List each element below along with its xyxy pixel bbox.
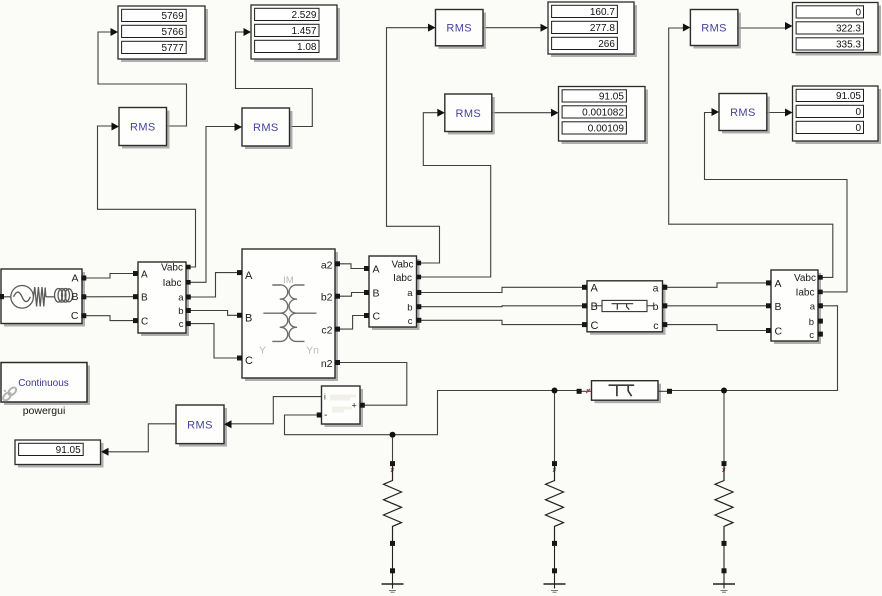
- svg-text:a: a: [653, 283, 659, 295]
- three-phase V-I measurement block meas3: [774, 273, 821, 344]
- meas2 port b: [416, 304, 421, 309]
- svg-text:B: B: [71, 291, 78, 303]
- meas1 port Iabc: [186, 280, 191, 285]
- ground: [382, 583, 404, 585]
- svg-text:0: 0: [855, 123, 861, 134]
- svg-text:A: A: [245, 270, 253, 282]
- meas3 port a: [818, 303, 823, 308]
- pi section left wire: [582, 390, 592, 392]
- wire transformer.b2 to meas2.B: [339, 293, 365, 297]
- svg-text:C: C: [775, 326, 783, 338]
- meas1 port Vabc: [186, 265, 191, 270]
- svg-text:a: a: [178, 293, 184, 304]
- wire RMS4 to display D3: [483, 27, 541, 29]
- wire RMS7 to display D6: [767, 112, 786, 114]
- svg-text:c2: c2: [321, 325, 332, 337]
- pi-line port b: [662, 303, 667, 308]
- RMS block RMS2: [245, 111, 293, 149]
- wire transformer.c2 to meas2.C: [339, 316, 365, 330]
- pi section red mark: [586, 389, 590, 393]
- svg-text:2.529: 2.529: [291, 10, 316, 21]
- wire RMS1 to display D1: [98, 32, 187, 126]
- transformer port a2: [335, 261, 340, 266]
- svg-text:A: A: [373, 263, 380, 275]
- wire source.B to meas1.B: [84, 296, 135, 298]
- wire meas3.a to load bus: [724, 306, 838, 391]
- svg-text:Continuous: Continuous: [18, 378, 69, 389]
- transformer port B: [237, 313, 242, 318]
- meas2 port C: [364, 313, 369, 318]
- svg-text:A: A: [141, 270, 148, 281]
- wire current measurement i to RMS3: [232, 397, 322, 424]
- three-phase source block: [4, 272, 85, 327]
- meas2 port Iabc: [417, 275, 422, 280]
- svg-text:RMS: RMS: [730, 107, 756, 119]
- svg-text:Yn: Yn: [306, 345, 319, 357]
- svg-text:b2: b2: [321, 292, 333, 304]
- svg-text:RMS: RMS: [130, 122, 156, 134]
- transformer port n2: [335, 360, 340, 365]
- three-phase transformer block: [245, 252, 338, 381]
- svg-text:C: C: [71, 310, 79, 322]
- meas1 port b: [186, 308, 191, 313]
- meas2 port A: [364, 266, 369, 271]
- junction dot node R2 tap: [552, 388, 558, 394]
- wire meas2.c to pi-line.C: [417, 320, 584, 324]
- meas2 port Vabc: [417, 261, 422, 266]
- meas3 port B: [766, 303, 771, 308]
- wire meas3.Vabc to RMS6: [669, 28, 833, 277]
- pi section right wire: [658, 390, 667, 392]
- powergui chain icon: [2, 386, 18, 402]
- pi section pi symbol: [609, 385, 635, 396]
- source port C: [81, 313, 86, 318]
- wire meas1.Vabc to RMS1: [98, 126, 196, 267]
- svg-text:Iabc: Iabc: [393, 273, 412, 284]
- svg-text:a2: a2: [321, 259, 333, 271]
- ground: [713, 583, 735, 585]
- pi-line port B: [582, 303, 587, 308]
- svg-text:B: B: [141, 292, 148, 303]
- three-phase V-I measurement block meas1: [141, 265, 189, 336]
- svg-text:powergui: powergui: [23, 405, 66, 417]
- wire meas1.b to transformer.B: [187, 311, 239, 316]
- meas1 port C: [133, 318, 138, 323]
- pi section port left: [577, 389, 582, 394]
- wire pi-line.b to meas3.B: [663, 305, 768, 307]
- svg-text:RMS: RMS: [253, 122, 279, 134]
- meas1 port A: [133, 271, 138, 276]
- meas3 port C: [766, 328, 771, 333]
- svg-text:c: c: [809, 330, 814, 341]
- svg-text:A: A: [775, 278, 782, 290]
- svg-text:0: 0: [855, 107, 861, 118]
- RMS block RMS3: [179, 408, 227, 447]
- svg-text:Vabc: Vabc: [794, 273, 816, 284]
- RMS block RMS4: [439, 13, 487, 49]
- wire meas1.a to transformer.A: [187, 273, 239, 297]
- source port N: [0, 294, 4, 299]
- svg-text:b: b: [407, 302, 412, 313]
- display D7: [18, 443, 104, 468]
- meas2 port a: [416, 290, 421, 295]
- pi section port right: [667, 389, 672, 394]
- svg-text:RMS: RMS: [701, 23, 727, 35]
- wire to R1: [392, 438, 394, 462]
- pi-line port a: [662, 285, 667, 290]
- wire meas2.a to pi-line.A: [417, 287, 584, 292]
- transformer port C: [237, 356, 242, 361]
- svg-text:Y: Y: [259, 345, 266, 357]
- current measurement block: [325, 389, 364, 427]
- pi-line port c: [662, 322, 667, 327]
- wire source.C to meas1.C: [84, 316, 135, 321]
- meas1 port B: [133, 294, 138, 299]
- wire meas2.Iabc to RMS5: [417, 113, 491, 277]
- svg-text:C: C: [591, 320, 599, 332]
- wire meas3.Iabc to RMS7: [705, 113, 848, 292]
- wire pi-line.c to meas3.C: [663, 325, 768, 331]
- display D1: [121, 9, 208, 62]
- pi-line inner rect: [602, 300, 647, 311]
- pi-line port A: [582, 285, 587, 290]
- meas3 port c: [818, 332, 823, 337]
- source internal drawing: [4, 286, 73, 309]
- junction dot node R3 tap: [721, 388, 727, 394]
- wire current measurement - to bus: [285, 415, 393, 435]
- meas3 port Iabc: [818, 290, 823, 295]
- wire meas1.c to transformer.C: [187, 324, 239, 358]
- single-phase PI section line block: [595, 384, 662, 404]
- powergui block: [4, 366, 90, 406]
- wire source.A to meas1.A: [84, 274, 135, 279]
- svg-text:0.001082: 0.001082: [582, 108, 624, 119]
- transformer port c2: [335, 327, 340, 332]
- svg-text:Iabc: Iabc: [163, 278, 182, 289]
- transformer winding 2: [289, 285, 316, 342]
- display D4: [562, 90, 649, 145]
- svg-text:322.3: 322.3: [836, 24, 861, 35]
- meas2 port c: [416, 318, 421, 323]
- resistor R2: [552, 461, 557, 466]
- three-phase PI section line block: [590, 284, 666, 335]
- svg-text:1.08: 1.08: [297, 42, 317, 53]
- svg-text:c: c: [179, 319, 184, 330]
- svg-text:a: a: [407, 288, 413, 299]
- svg-text:335.3: 335.3: [836, 40, 861, 51]
- RMS block RMS5: [448, 97, 495, 135]
- svg-text:A: A: [591, 283, 599, 295]
- svg-text:C: C: [245, 355, 253, 367]
- RMS block RMS7: [722, 97, 770, 134]
- svg-text:-: -: [324, 410, 327, 421]
- svg-text:160.7: 160.7: [590, 7, 615, 18]
- pi-line pi symbol: [612, 304, 634, 310]
- svg-text:c: c: [653, 320, 658, 332]
- source port B: [81, 294, 86, 299]
- RMS block RMS1: [122, 111, 170, 149]
- svg-text:b: b: [653, 301, 659, 313]
- wire to R2: [554, 394, 556, 462]
- transformer port b2: [335, 294, 340, 299]
- svg-text:5766: 5766: [161, 27, 184, 38]
- meas3 port A: [766, 280, 771, 285]
- svg-text:266: 266: [598, 39, 615, 50]
- svg-text:5777: 5777: [161, 43, 184, 54]
- current measurement faint interior: [330, 396, 356, 411]
- source port A: [81, 276, 86, 281]
- pi-line lead B: [596, 305, 654, 307]
- svg-text:b: b: [809, 317, 814, 328]
- svg-text:Iabc: Iabc: [796, 288, 815, 299]
- current measurement port -: [317, 413, 322, 418]
- svg-text:Vabc: Vabc: [391, 260, 413, 271]
- wire transformer.n2 to current measurement +: [339, 363, 407, 406]
- wire load bus left segment: [393, 391, 578, 435]
- wire meas1.Iabc to RMS2: [187, 127, 235, 283]
- wire transformer.a2 to meas2.A: [339, 264, 365, 269]
- wire meas2.Vabc to RMS4: [387, 28, 440, 263]
- svg-text:0: 0: [855, 8, 861, 19]
- svg-text:C: C: [373, 310, 381, 322]
- transformer port A: [237, 270, 242, 275]
- wire RMS5 to display D4: [493, 112, 552, 114]
- svg-text:5769: 5769: [161, 11, 184, 22]
- wire load bus right segment: [672, 390, 724, 392]
- transformer winding 1: [263, 285, 287, 342]
- three-phase V-I measurement block meas2: [372, 259, 420, 330]
- svg-text:n2: n2: [321, 358, 333, 370]
- svg-text:IM: IM: [283, 275, 294, 286]
- svg-text:a: a: [810, 302, 816, 313]
- wire RMS3 to display D7: [108, 424, 177, 452]
- svg-text:91.05: 91.05: [599, 92, 624, 103]
- resistor R1: [390, 461, 395, 466]
- svg-text:c: c: [408, 316, 413, 327]
- svg-text:B: B: [245, 313, 252, 325]
- svg-text:B: B: [373, 287, 380, 299]
- svg-text:i: i: [324, 393, 326, 402]
- meas3 port b: [818, 319, 823, 324]
- meas1 port c: [186, 321, 191, 326]
- RMS block RMS6: [693, 13, 741, 49]
- svg-text:+: +: [352, 400, 357, 410]
- svg-text:Vabc: Vabc: [161, 263, 183, 274]
- meas2 port B: [364, 290, 369, 295]
- svg-text:B: B: [591, 301, 598, 313]
- pi-line port C: [582, 322, 587, 327]
- junction dot node R1 tap: [390, 432, 396, 438]
- wire RMS2 to display D2: [236, 32, 313, 127]
- wire pi-line.a to meas3.A: [663, 283, 768, 287]
- display D5: [796, 6, 882, 56]
- svg-text:277.8: 277.8: [590, 23, 615, 34]
- svg-text:b: b: [178, 306, 183, 317]
- svg-text:91.05: 91.05: [836, 91, 861, 102]
- ground: [544, 583, 566, 585]
- wire RMS6 to display D5: [739, 27, 786, 29]
- meas1 port a: [186, 295, 191, 300]
- wire to R3: [723, 394, 725, 462]
- svg-text:RMS: RMS: [455, 108, 481, 120]
- display D2: [254, 8, 340, 62]
- svg-text:RMS: RMS: [187, 419, 213, 431]
- svg-text:91.05: 91.05: [56, 445, 81, 456]
- current measurement port +: [360, 403, 365, 408]
- svg-text:C: C: [141, 316, 148, 327]
- meas3 port Vabc: [818, 275, 823, 280]
- svg-text:0.00109: 0.00109: [588, 124, 625, 135]
- display D3: [551, 5, 637, 57]
- svg-text:1.457: 1.457: [291, 26, 316, 37]
- svg-text:A: A: [71, 273, 78, 285]
- svg-text:B: B: [775, 301, 782, 313]
- svg-text:RMS: RMS: [446, 23, 472, 35]
- wire meas2.b to pi-line.B: [417, 305, 584, 308]
- display D6: [796, 89, 882, 144]
- resistor R3: [722, 461, 727, 466]
